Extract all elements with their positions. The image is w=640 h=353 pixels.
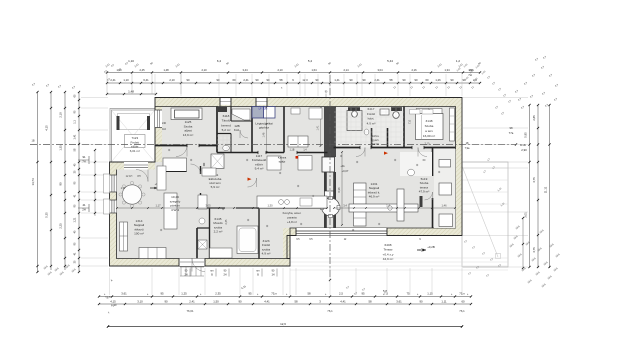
svg-text:90: 90 [350, 78, 353, 82]
party wall small box [325, 191, 334, 197]
svg-text:91: 91 [82, 155, 86, 159]
svg-text:3,05: 3,05 [205, 204, 211, 208]
svg-text:5,95: 5,95 [524, 132, 528, 138]
svg-text:sm: sm [210, 270, 213, 273]
building interior floor [117, 107, 456, 259]
svg-text:2,2 m²: 2,2 m² [214, 230, 223, 234]
svg-text:90: 90 [256, 78, 259, 82]
south-east exterior wall [287, 228, 462, 236]
svg-text:60: 60 [233, 78, 236, 82]
svg-text:5,35: 5,35 [45, 212, 49, 218]
svg-text:3,44: 3,44 [242, 68, 248, 72]
twin equipment boxes [252, 107, 264, 119]
svg-text:90: 90 [164, 300, 168, 304]
svg-text:2,10: 2,10 [277, 68, 283, 72]
svg-text:75: 75 [406, 292, 410, 296]
svg-text:90: 90 [316, 78, 319, 82]
wing door arc [136, 170, 148, 182]
storage shelf [217, 107, 227, 112]
svg-text:90: 90 [451, 78, 454, 82]
svg-text:41: 41 [82, 203, 86, 207]
svg-text:5,4: 5,4 [308, 59, 313, 63]
entry walls [200, 166, 202, 174]
svg-text:4,75: 4,75 [532, 247, 536, 253]
corridor sideboard [163, 158, 187, 172]
svg-text:3,61: 3,61 [396, 300, 402, 304]
east exterior wall [456, 98, 463, 236]
entry cabinet [198, 195, 207, 209]
east wardrobe column [354, 183, 367, 226]
svg-text:90: 90 [59, 182, 63, 185]
wc fixture [223, 145, 230, 150]
east bath light floor [334, 107, 404, 148]
svg-text:5,8: 5,8 [383, 289, 387, 293]
wc tile lines [218, 135, 220, 152]
svg-text:100 m²: 100 m² [134, 232, 144, 236]
svg-text:16,00 m²: 16,00 m² [423, 134, 435, 138]
extension lines bottom [109, 268, 111, 295]
svg-text:1,25: 1,25 [181, 292, 187, 296]
svg-text:76,1: 76,1 [459, 309, 465, 313]
svg-text:6,41: 6,41 [143, 78, 149, 82]
svg-text:6,4: 6,4 [217, 59, 222, 63]
west wing north window [124, 162, 148, 170]
west window sills [104, 174, 110, 193]
svg-text:90: 90 [415, 78, 418, 82]
svg-text:1,4: 1,4 [386, 204, 390, 208]
svg-text:90: 90 [363, 78, 366, 82]
small rects corridor [267, 156, 281, 170]
west kitchen counter [257, 196, 327, 209]
svg-text:Szoba: Szoba [425, 124, 434, 128]
svg-text:47,9 m²: 47,9 m² [419, 190, 430, 194]
svg-text:2,41: 2,41 [374, 78, 380, 82]
svg-text:1,41: 1,41 [74, 134, 77, 139]
svg-text:2H: 2H [184, 274, 187, 277]
west wall windows [155, 110, 162, 128]
svg-text:2,45: 2,45 [139, 68, 145, 72]
svg-text:58: 58 [280, 78, 283, 82]
svg-text:2,41: 2,41 [189, 300, 195, 304]
svg-text:76,61: 76,61 [187, 309, 194, 313]
svg-text:95: 95 [248, 292, 252, 296]
covered porch NW [110, 109, 155, 163]
entry shower square [211, 154, 224, 169]
svg-text:1,48: 1,48 [263, 132, 266, 137]
porch columns [117, 116, 120, 130]
svg-text:pararta: pararta [287, 216, 297, 220]
west bath tub [237, 226, 258, 254]
bed pillows / details [410, 110, 421, 115]
svg-text:1,64: 1,64 [311, 68, 317, 72]
horizontal centerline [30, 144, 516, 146]
svg-text:76,1: 76,1 [327, 309, 333, 313]
svg-text:240: 240 [162, 122, 167, 125]
svg-text:1,48: 1,48 [128, 90, 134, 94]
svg-text:3148: 3148 [426, 119, 433, 123]
svg-text:11,11: 11,11 [544, 186, 548, 193]
svg-text:2,41: 2,41 [243, 78, 249, 82]
door jamb ticks [186, 144, 188, 147]
svg-text:1,2: 1,2 [456, 59, 461, 63]
north exterior wall [155, 98, 462, 107]
svg-text:2,35: 2,35 [215, 292, 221, 296]
NE bedroom bed [416, 114, 444, 140]
svg-text:2,14: 2,14 [343, 68, 349, 72]
svg-text:90: 90 [238, 300, 242, 304]
svg-text:3,61: 3,61 [121, 292, 127, 296]
svg-text:1,50: 1,50 [213, 300, 219, 304]
SE room light floor [434, 149, 456, 228]
svg-text:sm: sm [256, 270, 259, 273]
svg-text:90: 90 [187, 78, 190, 82]
east tv board [439, 160, 451, 168]
entry door arc [191, 164, 201, 174]
north wall windows [220, 98, 231, 105]
laundry appliance block [288, 136, 308, 147]
right dimension chains [529, 105, 531, 267]
svg-text:110: 110 [162, 128, 166, 131]
west living couch [164, 193, 177, 229]
svg-text:5,2 m²: 5,2 m² [222, 128, 231, 132]
svg-text:1,11: 1,11 [441, 300, 447, 304]
east living light patch [400, 152, 432, 176]
svg-text:60: 60 [426, 78, 429, 82]
misc tiny marks [168, 149, 170, 151]
svg-text:6408: 6408 [385, 243, 392, 247]
step wall [283, 228, 290, 266]
extension lines right [463, 97, 528, 99]
NE bedroom wardrobe [450, 108, 455, 141]
svg-text:1H: 1H [271, 274, 274, 277]
svg-text:710: 710 [409, 119, 412, 124]
svg-text:44,9 m²: 44,9 m² [383, 257, 394, 261]
svg-text:gépház: gépház [259, 126, 270, 130]
svg-text:1,34: 1,34 [444, 68, 450, 72]
svg-text:3,04: 3,04 [377, 68, 383, 72]
east island [397, 189, 404, 221]
west corridor furniture [157, 166, 166, 190]
svg-text:+0,4 x,y: +0,4 x,y [383, 252, 394, 256]
svg-text:58: 58 [307, 292, 311, 296]
left dimension chains [37, 92, 39, 272]
interior dim x320 [320, 108, 322, 146]
svg-text:2,5: 2,5 [339, 292, 343, 296]
svg-text:7123: 7123 [131, 136, 138, 140]
svg-text:1,46: 1,46 [441, 204, 447, 208]
svg-text:Tároló: Tároló [222, 119, 231, 123]
east sofa [439, 183, 452, 195]
east kitchen counter [349, 204, 418, 212]
window dim line west [94, 150, 96, 216]
svg-text:58: 58 [294, 300, 298, 304]
svg-text:7,9a: 7,9a [465, 147, 470, 150]
svg-text:3,01: 3,01 [524, 212, 528, 218]
party wall stove circle [322, 198, 340, 216]
south-east glass door [296, 228, 387, 236]
small squares along top wall interior [291, 108, 300, 114]
svg-text:90: 90 [217, 78, 220, 82]
svg-text:1,48: 1,48 [163, 68, 169, 72]
dining table [122, 185, 141, 204]
svg-text:8H: 8H [137, 175, 140, 178]
svg-text:4,75: 4,75 [532, 177, 536, 183]
svg-text:9,4 m²: 9,4 m² [255, 167, 264, 171]
svg-text:+0,07: +0,07 [342, 169, 349, 173]
+0.00 level mark [417, 249, 426, 251]
svg-text:58: 58 [390, 78, 393, 82]
svg-text:1,35: 1,35 [59, 145, 63, 151]
svg-text:2,16: 2,16 [411, 68, 417, 72]
svg-text:58: 58 [368, 300, 372, 304]
svg-text:előtér: előtér [131, 145, 139, 149]
door swing arcs [176, 146, 187, 157]
terrace east [462, 162, 508, 267]
west exterior wall [110, 162, 117, 266]
svg-text:90: 90 [267, 78, 270, 82]
svg-text:5,9 m²: 5,9 m² [211, 185, 220, 189]
svg-text:1,10: 1,10 [128, 59, 134, 63]
svg-text:95: 95 [160, 292, 164, 296]
svg-text:1,17: 1,17 [155, 204, 161, 208]
svg-text:1,41: 1,41 [317, 125, 320, 130]
svg-text:12,6: 12,6 [280, 322, 286, 326]
svg-text:90: 90 [403, 78, 406, 82]
interior dim x266 [266, 107, 268, 152]
interior dimension line [117, 207, 327, 209]
svg-text:2,85: 2,85 [532, 115, 536, 121]
exterior wall outline [110, 98, 463, 267]
vertical centerline [329, 75, 331, 280]
svg-text:60: 60 [461, 300, 465, 304]
svg-text:+3A: +3A [340, 165, 345, 168]
pantry shelves [232, 109, 250, 120]
svg-text:2,10: 2,10 [59, 112, 63, 118]
svg-text:2,25: 2,25 [59, 223, 63, 229]
svg-text:2,10: 2,10 [425, 143, 430, 146]
party wall flue block [322, 157, 335, 172]
svg-text:95: 95 [361, 292, 365, 296]
svg-text:Konyha, amer.: Konyha, amer. [283, 211, 302, 215]
top dimension chains [107, 72, 480, 74]
svg-text:1B: 1B [522, 143, 526, 147]
svg-text:Köz.: Köz. [234, 128, 240, 132]
east small table [408, 169, 415, 176]
svg-text:6,01 m²: 6,01 m² [130, 149, 140, 153]
svg-text:46,9 m²: 46,9 m² [369, 195, 380, 199]
svg-text:1,15: 1,15 [427, 292, 433, 296]
red service marks [296, 156, 299, 159]
svg-text:4,41: 4,41 [264, 300, 270, 304]
east unit walls [371, 128, 373, 148]
svg-text:1,1: 1,1 [74, 120, 77, 124]
svg-text:4 W 4: 4 W 4 [171, 208, 179, 212]
svg-text:14,74: 14,74 [31, 178, 35, 185]
svg-text:4,41: 4,41 [340, 300, 346, 304]
terrace south deck lines [290, 257, 508, 259]
svg-text:77a: 77a [509, 131, 514, 135]
svg-text:6118: 6118 [223, 114, 230, 118]
svg-text:75,n: 75,n [459, 292, 465, 296]
svg-text:6,36: 6,36 [337, 187, 341, 193]
svg-text:1,21: 1,21 [74, 217, 77, 222]
bottom dimension chains [99, 296, 471, 298]
west unit walls [216, 107, 218, 153]
west bath vanity [210, 248, 233, 258]
west wing north wall [110, 162, 156, 170]
svg-text:2H: 2H [223, 274, 226, 277]
south-west entrance door [179, 259, 205, 267]
svg-text:2,10: 2,10 [201, 68, 207, 72]
svg-text:4,15: 4,15 [45, 125, 49, 131]
NW bedroom bed block [171, 108, 202, 120]
svg-text:2,41: 2,41 [110, 78, 116, 82]
svg-text:12 1H: 12 1H [126, 175, 133, 178]
svg-text:1,17: 1,17 [121, 187, 126, 190]
svg-text:4,9 m²: 4,9 m² [262, 252, 271, 256]
svg-text:1,1B: 1,1B [290, 150, 295, 152]
svg-text:1,30: 1,30 [267, 204, 273, 208]
svg-text:+4,8 m²: +4,8 m² [287, 220, 297, 224]
east wall window detail [445, 157, 455, 167]
svg-text:13,9 m²: 13,9 m² [183, 133, 194, 137]
svg-text:2,10: 2,10 [169, 78, 175, 82]
south-west exterior wall [110, 259, 291, 267]
extension lines top [154, 74, 156, 96]
svg-text:12 3: 12 3 [302, 78, 308, 82]
svg-text:90: 90 [419, 300, 423, 304]
svg-text:1,10: 1,10 [123, 78, 129, 82]
svg-text:1B: 1B [31, 140, 34, 143]
svg-text:75,n: 75,n [271, 292, 277, 296]
party wall mid [324, 172, 327, 228]
svg-text:fürdő: fürdő [372, 142, 379, 146]
svg-text:5,44: 5,44 [387, 59, 393, 63]
extension lines left [81, 97, 108, 99]
east bath fixtures [348, 107, 360, 111]
closet internals NE [450, 115, 455, 117]
svg-text:2,90: 2,90 [521, 148, 527, 152]
svg-text:3,10: 3,10 [137, 300, 143, 304]
svg-text:1,41: 1,41 [334, 78, 340, 82]
shower [198, 240, 207, 249]
west wardrobe bottom-left [120, 222, 128, 251]
east dark bar [420, 196, 423, 207]
west upper exterior wall [155, 98, 162, 163]
svg-text:3,4: 3,4 [343, 204, 347, 208]
svg-text:a terv: a terv [425, 129, 433, 133]
party wall upper [324, 107, 336, 158]
svg-text:1,26: 1,26 [435, 78, 441, 82]
svg-text:+0,2B: +0,2B [427, 245, 435, 249]
svg-text:2,35: 2,35 [225, 219, 228, 224]
porch label box 7123 [125, 135, 146, 148]
svg-text:berend: berend [221, 123, 231, 127]
svg-text:spájz: spájz [279, 160, 286, 164]
svg-text:Terasz: Terasz [383, 248, 393, 252]
